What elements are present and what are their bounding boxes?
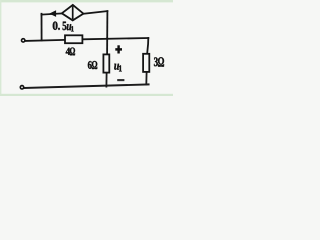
label 6-ohm: [88, 61, 92, 69]
wire: loop top, diamond right vertex to corner: [83, 11, 107, 14]
wire: top main, left segment (terminal to 4-ohm): [25, 40, 64, 41]
wire: 6-ohm upper lead: [106, 38, 108, 54]
wire: right riser of loop down to node at (107,38): [106, 11, 108, 38]
label 3-ohm: [154, 57, 158, 66]
plus sign of u1 polarity: [115, 45, 122, 53]
current direction arrow of controlled source: [49, 10, 56, 17]
wire: 6-ohm lower lead: [105, 73, 107, 86]
wire: bottom return: [24, 84, 149, 88]
wire: 3-ohm upper lead from top-right corner: [147, 38, 148, 53]
wire: top main, right segment (4-ohm to top-right corner), node at x=107: [83, 38, 148, 39]
wire: loop top, corner to diamond left vertex: [42, 13, 62, 14]
minus sign of u1 polarity: [117, 79, 124, 81]
terminal: bottom-left open circle: [20, 86, 23, 89]
resistor 6-ohm box: [103, 54, 109, 72]
label u1 voltage across 6-ohm: [114, 64, 119, 70]
resistor 4-ohm box: [65, 35, 82, 43]
controlled current source 0.5u1: diamond body: [62, 5, 84, 21]
terminal: top-left open circle: [22, 39, 25, 42]
wire: 3-ohm lower lead: [145, 73, 147, 85]
resistor 3-ohm box: [143, 54, 149, 72]
page background: [0, 0, 173, 96]
label 4-ohm: [66, 48, 70, 55]
wire: left riser of controlled-source loop: [41, 14, 43, 41]
label 0.5u1 of controlled source: [53, 22, 58, 30]
controlled current source 0.5u1: inner bar: [72, 6, 74, 19]
